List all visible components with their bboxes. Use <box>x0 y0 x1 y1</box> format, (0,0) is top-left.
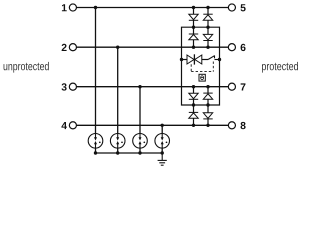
terminal 7 <box>228 83 235 90</box>
diode column stubs <box>194 8 209 126</box>
wire drop from line 4 to arrester F4 <box>161 125 163 133</box>
gas discharge tube F4 <box>155 134 170 149</box>
node line6/V4 <box>206 46 209 49</box>
pin number 1 <box>62 4 67 11</box>
node line8/V7 <box>192 124 195 127</box>
label protected <box>262 62 298 73</box>
diode V3 (line6 -> rail, up) <box>189 34 198 40</box>
node central-right <box>218 58 221 61</box>
node line4/drop4 <box>161 124 164 127</box>
terminal 8 <box>228 122 235 129</box>
node toprail/V1 <box>192 26 195 29</box>
terminal 4 <box>69 122 76 129</box>
wire drop from line 3 to arrester F3 <box>139 87 141 134</box>
terminal 2 <box>69 44 76 51</box>
wire central branch right <box>202 59 208 61</box>
wire drop from line 2 to arrester F2 <box>117 47 119 133</box>
diode V8 (rail -> line8, down) <box>203 113 212 119</box>
pin number 3 <box>62 83 67 90</box>
dashed mechanical linkage <box>191 62 213 72</box>
pin number 4 <box>61 122 67 129</box>
terminal 1 <box>69 4 76 11</box>
node line7/V5 <box>192 85 195 88</box>
wire line 1 to 5 <box>77 7 228 9</box>
junction dots <box>94 6 221 155</box>
node gndrail/F4 <box>161 151 164 154</box>
wire stubs left column lower group <box>193 87 195 94</box>
surge arrester (bidirectional) U1 <box>187 54 202 64</box>
node botrail/V6 <box>206 103 209 106</box>
ground <box>158 153 167 165</box>
terminal 5 <box>228 4 235 11</box>
diode V5 (line7 -> rail, down) <box>189 93 198 99</box>
rail box (top rail, side rails, bottom rail) <box>182 27 220 105</box>
terminal 6 <box>228 44 235 51</box>
diode V1 (line1 -> rail, down) <box>189 14 198 20</box>
thermal disconnect switch S1 <box>208 55 219 59</box>
node botrail/V5 <box>192 103 195 106</box>
gas discharge tube F2 <box>110 134 125 149</box>
pin number 6 <box>241 44 246 51</box>
node line1/drop1 <box>94 6 97 9</box>
terminal 3 <box>69 83 76 90</box>
wire stubs right column upper group <box>207 8 209 15</box>
wire central branch left <box>182 59 188 61</box>
wire drop from line 1 to arrester F1 <box>95 8 97 134</box>
wire stubs left column upper group <box>193 8 195 15</box>
pin number 7 <box>241 83 246 90</box>
node central-left <box>180 58 183 61</box>
node line1/V1 <box>192 6 195 9</box>
wire line 2 to 6 <box>77 46 228 48</box>
diode V2 (rail -> line1, up) <box>203 14 212 20</box>
node line7/V6 <box>206 85 209 88</box>
node line6/V3 <box>192 46 195 49</box>
node line8/V8 <box>206 124 209 127</box>
pin number 5 <box>241 4 246 11</box>
diode V6 (rail -> line7, up) <box>203 93 212 99</box>
diode V4 (rail -> line6, down) <box>203 34 212 40</box>
node line3/drop3 <box>138 85 141 88</box>
pin number 2 <box>62 44 67 51</box>
node line1/V2 <box>206 6 209 9</box>
wire line 3 to 7 <box>77 86 228 88</box>
wire line 4 to 8 <box>77 124 228 126</box>
gas discharge tube F1 <box>88 134 103 149</box>
pin number 8 <box>241 122 246 129</box>
node gndrail/F2 <box>116 151 119 154</box>
label unprotected <box>4 62 49 73</box>
node line2/drop2 <box>116 46 119 49</box>
node gndrail/F1 <box>94 151 97 154</box>
node gndrail/F3 <box>138 151 141 154</box>
gas discharge tube F3 <box>133 134 148 149</box>
node toprail/V2 <box>206 26 209 29</box>
thermal element (theta box) <box>199 74 205 81</box>
wire ground rail <box>96 148 163 153</box>
diode V7 (line8 -> rail, up) <box>189 112 198 118</box>
wire stubs right column lower group <box>207 87 209 93</box>
